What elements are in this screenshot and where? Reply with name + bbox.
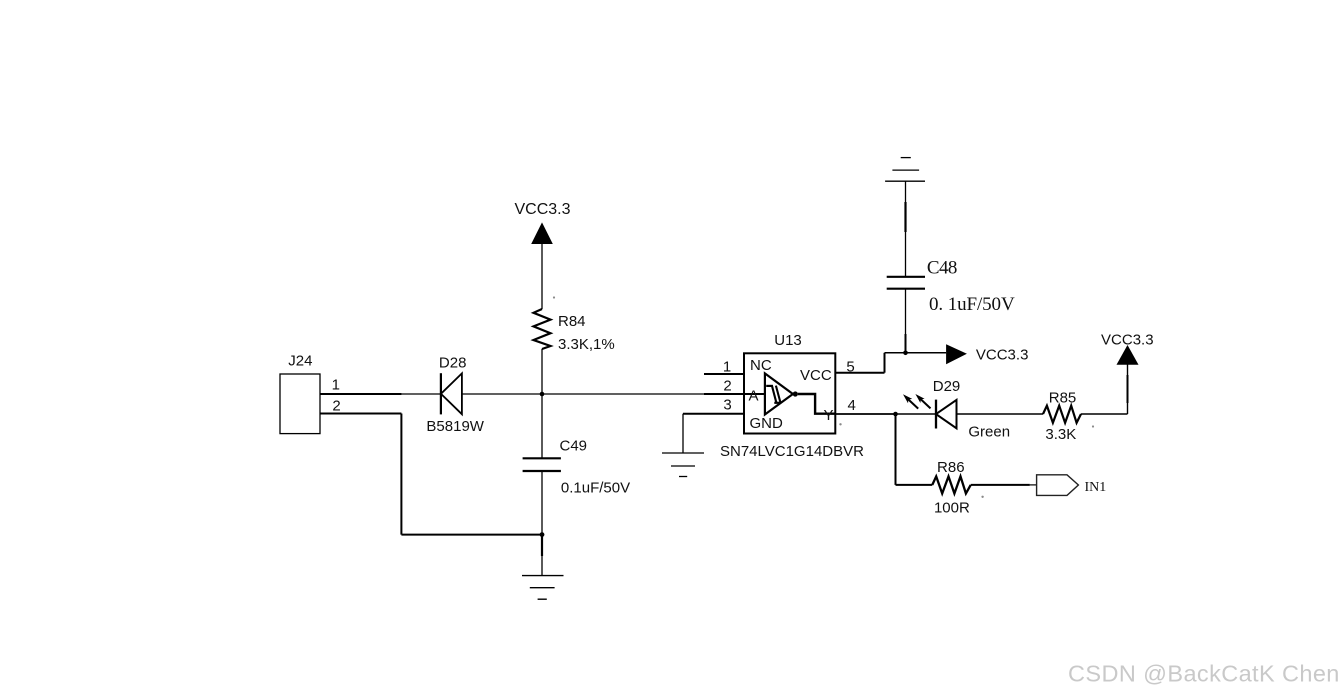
svg-text:U13: U13 bbox=[774, 332, 802, 349]
svg-text:D28: D28 bbox=[439, 355, 467, 372]
svg-text:VCC3.3: VCC3.3 bbox=[514, 201, 570, 218]
svg-text:VCC: VCC bbox=[800, 367, 832, 384]
svg-text:1: 1 bbox=[723, 358, 731, 375]
svg-text:R84: R84 bbox=[558, 313, 586, 330]
svg-text:Green: Green bbox=[968, 424, 1010, 441]
svg-text:IN1: IN1 bbox=[1085, 480, 1107, 495]
svg-text:GND: GND bbox=[750, 415, 784, 432]
svg-text:100R: 100R bbox=[934, 500, 970, 517]
svg-text:3.3K: 3.3K bbox=[1045, 426, 1076, 443]
svg-text:C49: C49 bbox=[560, 438, 588, 455]
svg-text:5: 5 bbox=[846, 359, 854, 376]
svg-text:NC: NC bbox=[750, 357, 772, 374]
svg-text:2: 2 bbox=[723, 377, 731, 394]
svg-text:SN74LVC1G14DBVR: SN74LVC1G14DBVR bbox=[720, 443, 864, 460]
svg-text:2: 2 bbox=[332, 398, 340, 415]
svg-text:Y: Y bbox=[824, 407, 834, 424]
svg-text:J24: J24 bbox=[288, 353, 312, 370]
svg-text:0.1uF/50V: 0.1uF/50V bbox=[561, 479, 630, 496]
svg-text:VCC3.3: VCC3.3 bbox=[1101, 331, 1154, 348]
svg-text:1: 1 bbox=[332, 377, 340, 394]
svg-text:3: 3 bbox=[723, 397, 731, 414]
svg-text:4: 4 bbox=[848, 397, 856, 414]
svg-text:C48: C48 bbox=[927, 258, 957, 279]
svg-text:B5819W: B5819W bbox=[426, 418, 484, 435]
svg-text:D29: D29 bbox=[933, 378, 961, 395]
svg-text:CSDN @BackCatK Chen: CSDN @BackCatK Chen bbox=[1068, 661, 1340, 687]
svg-text:A: A bbox=[749, 387, 759, 404]
svg-text:R85: R85 bbox=[1049, 389, 1077, 406]
svg-text:VCC3.3: VCC3.3 bbox=[976, 346, 1029, 363]
svg-text:0. 1uF/50V: 0. 1uF/50V bbox=[929, 294, 1015, 315]
svg-text:3.3K,1%: 3.3K,1% bbox=[558, 336, 615, 353]
svg-text:R86: R86 bbox=[937, 459, 965, 476]
